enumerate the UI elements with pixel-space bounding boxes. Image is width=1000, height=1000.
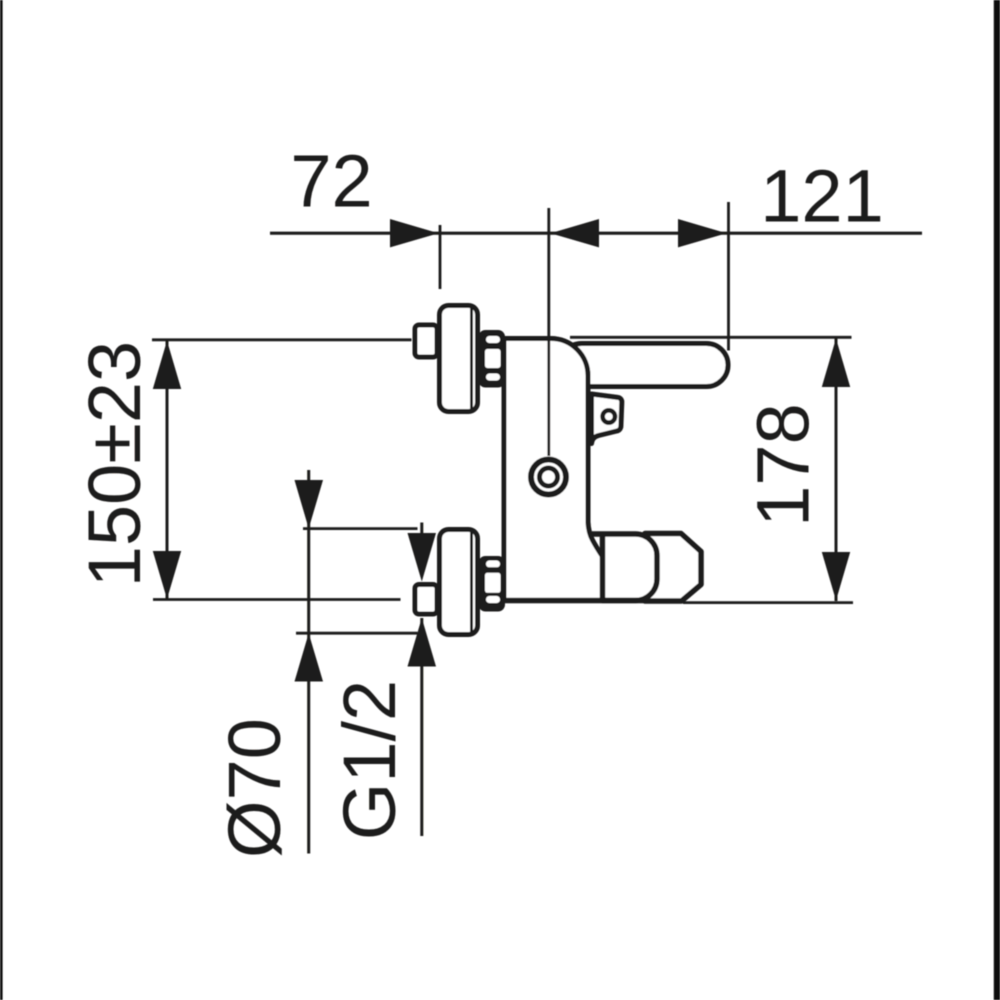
arrow up at G1/2 bottom <box>408 618 437 667</box>
lower connection nut <box>479 556 506 612</box>
right page border band <box>994 0 1000 1000</box>
G1/2 dimension line <box>420 523 423 837</box>
upper connection nut <box>479 330 506 388</box>
mounting screw concentric circles <box>531 460 566 495</box>
arrow down at G1/2 top <box>408 533 437 582</box>
150±23 dimension line <box>152 340 412 600</box>
outlet aerator cap (octagonal) <box>645 534 701 602</box>
arrow up at Ø70 bottom <box>295 633 324 681</box>
upper escutcheon flange <box>440 306 478 412</box>
extension tick at x=440 <box>439 225 442 289</box>
svg-text:Ø70: Ø70 <box>213 718 296 858</box>
left page border band <box>0 0 3 1000</box>
bracket tab on body with screw hole <box>592 394 622 444</box>
upper inlet nipple <box>415 325 437 357</box>
arrow down at 150 dim bottom <box>153 551 181 599</box>
screw hole in bracket tab <box>603 410 615 422</box>
arrow up at 178 top <box>822 339 850 388</box>
faucet handle lever (capsule) <box>560 344 728 387</box>
lower escutcheon flange <box>440 530 478 635</box>
body bottom edge <box>502 598 646 604</box>
outlet nose (D-shape) <box>589 534 657 601</box>
svg-text:G1/2: G1/2 <box>328 680 411 840</box>
arrow right at x=440 <box>390 219 439 247</box>
178 dimension line <box>570 337 853 602</box>
arrow down at 178 bottom <box>822 552 850 601</box>
arrow down at Ø70 top <box>295 480 324 529</box>
svg-text:72: 72 <box>290 140 372 223</box>
Ø70 dimension line <box>296 470 418 854</box>
arrow right at x=726.5 <box>678 219 727 247</box>
arrow left at x=551 <box>551 219 600 247</box>
top dimension line (72 / 121) <box>270 232 922 235</box>
extension tick at x=728.5 <box>727 202 730 351</box>
lower inlet nipple <box>415 585 437 615</box>
svg-text:150±23: 150±23 <box>73 341 156 587</box>
svg-text:121: 121 <box>760 155 883 238</box>
arrow up at 150 dim top <box>153 341 181 389</box>
svg-text:178: 178 <box>742 403 825 526</box>
faucet body (cartridge housing) <box>504 339 603 601</box>
centerline through faucet body <box>547 208 550 456</box>
